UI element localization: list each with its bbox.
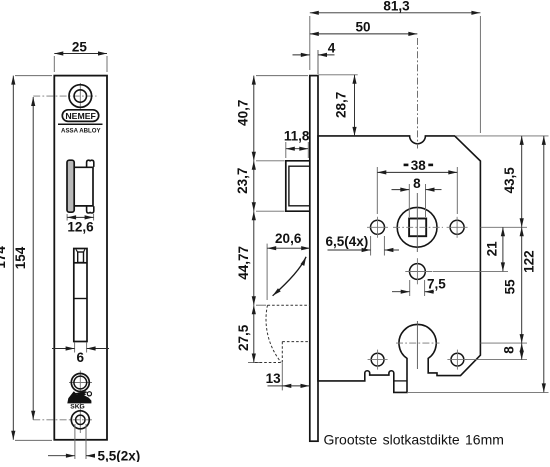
svg-text:4: 4: [328, 41, 336, 56]
follower centerlines: [393, 193, 443, 252]
svg-text:122: 122: [522, 250, 537, 273]
svg-text:50: 50: [355, 19, 370, 34]
svg-text:38: 38: [411, 158, 427, 173]
faceplate front outline: [54, 76, 107, 440]
dimension 8 (right): [521, 343, 523, 360]
svg-text:NEMEF: NEMEF: [65, 111, 96, 121]
svg-text:6,5(4x): 6,5(4x): [326, 234, 369, 249]
svg-text:21: 21: [485, 241, 500, 257]
lock case outline: [318, 136, 480, 393]
mounting holes 6,5 (4x): [371, 220, 465, 366]
svg-text:SKG: SKG: [70, 404, 85, 411]
svg-text:40,7: 40,7: [236, 100, 251, 126]
dimension 44,77: [254, 211, 266, 305]
deadbolt cutout: [74, 249, 87, 342]
svg-text:25: 25: [72, 40, 88, 55]
deadbolt extended (dashed ghost): [255, 305, 310, 362]
right side extension lines: [407, 136, 549, 393]
screw hole middle: [69, 371, 92, 434]
screw hole top: [33, 83, 96, 110]
latch cutout: [67, 160, 94, 213]
dimension 38: [377, 167, 457, 214]
svg-text:5,5(2x): 5,5(2x): [98, 449, 141, 463]
svg-text:8: 8: [413, 176, 421, 191]
svg-text:27,5: 27,5: [236, 324, 251, 351]
dimension 50: [310, 34, 418, 149]
dimension 81,3: [310, 13, 481, 133]
dimension 13: [268, 363, 310, 391]
svg-text:12,6: 12,6: [67, 220, 94, 235]
svg-text:11,8: 11,8: [284, 129, 310, 144]
svg-text:6: 6: [76, 350, 84, 365]
dimension 28,7: [318, 75, 358, 136]
dimension 23,7: [254, 161, 285, 211]
svg-text:23,7: 23,7: [235, 168, 250, 194]
cylinder hole centerlines: [396, 321, 440, 369]
dimension 12,6: [67, 214, 94, 221]
svg-text:43,5: 43,5: [502, 167, 517, 194]
svg-text:174: 174: [0, 246, 8, 269]
svg-text:ASSA ABLOY: ASSA ABLOY: [61, 127, 101, 134]
latch bolt side view: [286, 161, 310, 211]
svg-text:55: 55: [503, 279, 518, 295]
caption text: [324, 431, 504, 447]
dimension 55: [521, 227, 523, 343]
svg-text:7,5: 7,5: [427, 277, 446, 292]
dimension 4: [293, 50, 335, 74]
faceplate side view: [310, 76, 318, 442]
screw hole bottom: [33, 411, 92, 429]
svg-text:20,6: 20,6: [275, 231, 302, 246]
hole 7,5: [405, 258, 432, 284]
dimension 6,5(4x): [328, 236, 400, 256]
svg-text:44,77: 44,77: [236, 246, 251, 280]
dimension 43,5: [521, 136, 523, 227]
follower square hole: [397, 207, 437, 247]
dimension 5,5(2x): [48, 424, 94, 459]
dimension 174: [13, 76, 52, 441]
deadbolt swing arc: [273, 257, 307, 296]
dimension 11,8: [286, 142, 309, 158]
svg-text:154: 154: [13, 246, 28, 269]
dimension 8 (square): [392, 184, 442, 217]
svg-text:13: 13: [266, 371, 282, 386]
dimension 6: [52, 343, 109, 353]
dimension 20,6: [267, 244, 310, 300]
dimension 25: [54, 54, 107, 73]
dimension 21: [502, 227, 504, 271]
dimension 122: [543, 136, 545, 393]
svg-text:Grootste slotkastdikte 16mm: Grootste slotkastdikte 16mm: [324, 431, 504, 447]
SKG logo: [67, 391, 91, 410]
svg-text:8: 8: [502, 346, 517, 354]
NEMEF logo: [58, 110, 103, 124]
svg-text:81,3: 81,3: [383, 0, 410, 13]
dimension 154: [32, 97, 34, 420]
dimension 27,5: [248, 305, 262, 362]
svg-text:28,7: 28,7: [334, 92, 349, 118]
ASSA ABLOY text: [61, 127, 101, 134]
dimension 40,7: [254, 76, 308, 161]
dimension 7,5: [392, 280, 434, 296]
